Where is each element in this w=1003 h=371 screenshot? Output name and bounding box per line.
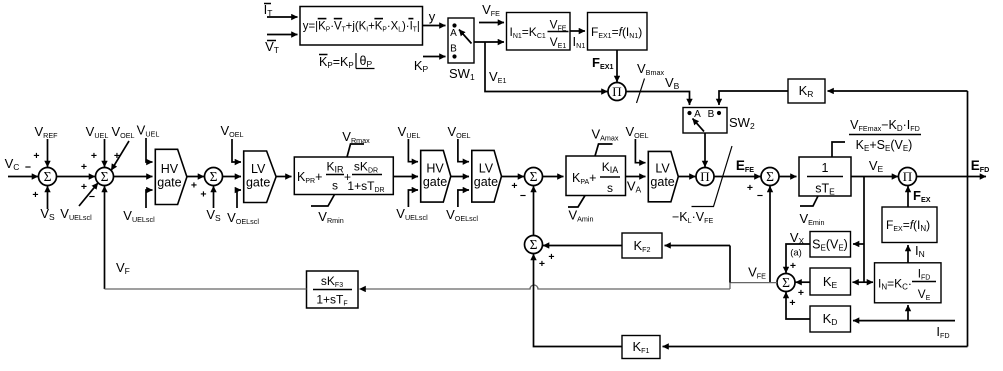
svg-text:+: + bbox=[548, 251, 554, 263]
svg-text:Π: Π bbox=[612, 84, 621, 99]
svg-text:1: 1 bbox=[822, 161, 829, 175]
svg-text:Σ: Σ bbox=[210, 169, 218, 184]
svg-text:+: + bbox=[789, 297, 795, 309]
svg-text:gate: gate bbox=[246, 175, 270, 189]
svg-text:−: − bbox=[89, 191, 95, 203]
svg-text:+: + bbox=[200, 189, 206, 201]
svg-text:gate: gate bbox=[423, 175, 447, 189]
svg-text:+: + bbox=[191, 180, 197, 192]
svg-text:HV: HV bbox=[426, 161, 444, 175]
svg-text:y=|KP·VT+j(KI+KP·XL)·IT|: y=|KP·VT+j(KI+KP·XL)·IT| bbox=[303, 19, 420, 34]
svg-text:LV: LV bbox=[655, 162, 670, 176]
svg-text:−: − bbox=[520, 190, 526, 202]
svg-text:+: + bbox=[114, 150, 120, 162]
svg-text:+: + bbox=[511, 180, 517, 192]
svg-text:−: − bbox=[25, 162, 31, 174]
svg-text:LV: LV bbox=[251, 162, 266, 176]
svg-text:Σ: Σ bbox=[44, 169, 52, 184]
svg-text:Π: Π bbox=[700, 169, 709, 184]
svg-text:Σ: Σ bbox=[101, 169, 109, 184]
svg-text:gate: gate bbox=[157, 175, 181, 189]
svg-text:Π: Π bbox=[903, 169, 912, 184]
svg-text:+: + bbox=[33, 150, 39, 162]
svg-text:B: B bbox=[708, 109, 715, 120]
svg-text:LV: LV bbox=[479, 161, 494, 175]
svg-text:A: A bbox=[450, 28, 457, 39]
svg-text:s: s bbox=[332, 179, 338, 193]
svg-text:+: + bbox=[81, 181, 87, 193]
svg-text:(a): (a) bbox=[790, 248, 802, 259]
svg-text:+: + bbox=[790, 260, 796, 272]
svg-text:HV: HV bbox=[161, 162, 179, 176]
svg-text:Σ: Σ bbox=[782, 275, 790, 290]
svg-text:−: − bbox=[757, 190, 763, 202]
svg-text:+: + bbox=[747, 182, 753, 194]
svg-text:A: A bbox=[694, 109, 701, 120]
svg-text:+: + bbox=[798, 287, 804, 299]
svg-text:+: + bbox=[539, 258, 545, 270]
svg-text:gate: gate bbox=[650, 175, 674, 189]
svg-text:+: + bbox=[91, 150, 97, 162]
svg-text:Σ: Σ bbox=[530, 237, 538, 252]
svg-text:B: B bbox=[450, 44, 457, 55]
svg-text:gate: gate bbox=[474, 175, 498, 189]
svg-text:+: + bbox=[81, 161, 87, 173]
svg-text:Σ: Σ bbox=[530, 169, 538, 184]
svg-text:+: + bbox=[32, 189, 38, 201]
svg-text:1+sTF: 1+sTF bbox=[316, 293, 347, 308]
svg-text:Σ: Σ bbox=[766, 169, 774, 184]
svg-text:y: y bbox=[429, 9, 436, 24]
svg-text:s: s bbox=[607, 181, 613, 195]
